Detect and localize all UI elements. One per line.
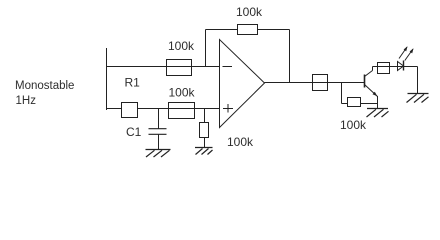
wire C1 top lead: [158, 109, 160, 130]
svg-text:100k: 100k: [236, 5, 263, 19]
transistor emitter arrowhead: [373, 92, 378, 97]
resistor 100k (feedback): [238, 25, 258, 35]
svg-text:100k: 100k: [340, 118, 367, 132]
wire base-emitter resistor branch: [342, 103, 378, 105]
wire collector vertical: [372, 67, 374, 71]
wire 100k-to-ground bottom lead: [204, 138, 206, 148]
svg-text:100k: 100k: [227, 135, 254, 149]
resistor 100k (inverting input): [167, 60, 192, 76]
wire feedback right vertical: [289, 30, 291, 83]
resistor (LED series): [378, 63, 390, 74]
ground (under C1): [146, 150, 171, 158]
ground (emitter): [367, 109, 389, 118]
op-amp plus sign: [223, 104, 233, 113]
svg-text:1Hz: 1Hz: [16, 95, 37, 107]
wire C1 bottom lead: [158, 134, 160, 149]
svg-text:100k: 100k: [169, 86, 196, 100]
resistor (output series, square box): [313, 75, 328, 91]
capacitor C1: [149, 129, 167, 135]
transistor collector diagonal: [365, 71, 373, 77]
wire feedback left vertical: [205, 30, 207, 67]
resistor R1: [122, 103, 138, 118]
wire LED branch right vertical: [417, 67, 419, 94]
transistor emitter diagonal: [365, 85, 378, 97]
LED D1: [398, 46, 414, 70]
op-amp U1: [220, 40, 265, 128]
wire emitter junction vertical: [377, 96, 379, 109]
ground (LED branch): [407, 94, 429, 103]
wire non-inverting-input branch: [107, 108, 220, 110]
wire op-amp output: [265, 82, 365, 84]
transistor Q1: [365, 71, 378, 97]
wire inverting-input branch: [107, 66, 220, 68]
op-amp minus sign: [223, 66, 233, 68]
resistor 100k (non-inverting input): [169, 103, 195, 119]
wire output drop vertical: [341, 83, 343, 104]
wire feedback top horizontal: [206, 29, 290, 31]
resistor 100k (base-emitter): [348, 98, 361, 107]
svg-text:Monostable: Monostable: [15, 80, 74, 92]
ground (under 100k at + input): [195, 148, 213, 155]
transistor base bar: [364, 75, 366, 88]
LED cathode bar: [403, 61, 405, 71]
LED anode triangle: [398, 62, 404, 71]
wire input vertical stub: [106, 48, 108, 110]
resistor 100k (to ground at + input): [200, 123, 209, 138]
svg-text:100k: 100k: [168, 39, 195, 53]
wire 100k-to-ground top lead: [204, 109, 206, 123]
LED light arrow 2: [405, 49, 413, 61]
svg-text:R1: R1: [125, 76, 141, 90]
LED light arrow 1: [399, 47, 407, 59]
svg-text:C1: C1: [126, 125, 142, 139]
wire LED branch horizontal: [373, 66, 418, 68]
